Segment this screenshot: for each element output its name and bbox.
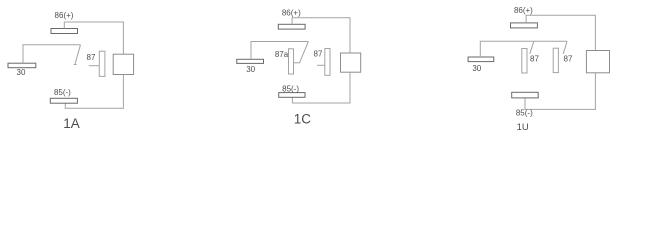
wire: terminal 30 to contact pivot (1A) — [23, 45, 81, 64]
svg-text:86(+): 86(+) — [55, 11, 74, 20]
wire: terminal 30 to contacts (1U) — [480, 41, 567, 57]
coil box (1A) — [113, 54, 133, 74]
fixed contact lead 87 (1C) — [317, 64, 325, 66]
svg-text:85(-): 85(-) — [54, 88, 71, 97]
movable contact blade left (1U) — [530, 41, 534, 54]
terminal 86 bar (1C) — [278, 24, 305, 29]
movable contact blade (1C) — [300, 42, 309, 63]
wire: coil to terminal 85 (1A) — [65, 75, 123, 109]
terminal 87 bar (1C) — [325, 49, 330, 76]
wire: terminal 30 to contact pivot (1C) — [251, 42, 308, 60]
terminal 87 bar (1A) — [99, 51, 105, 76]
wire: terminal 86 to coil (1C) — [292, 18, 350, 53]
blade tip tick (1A) — [74, 64, 77, 66]
svg-text:87a: 87a — [275, 50, 289, 59]
terminal 85 bar (1A) — [50, 98, 77, 103]
svg-text:1U: 1U — [517, 122, 529, 133]
svg-text:86(+): 86(+) — [282, 8, 301, 17]
terminal 87 bar left (1U) — [522, 49, 527, 74]
svg-text:30: 30 — [17, 68, 26, 77]
wire: terminal 86 to coil (1U) — [526, 15, 595, 50]
coil box (1C) — [341, 53, 361, 72]
svg-text:87: 87 — [530, 55, 539, 64]
svg-text:87: 87 — [314, 50, 323, 59]
terminal 86 bar (1U) — [511, 23, 538, 28]
wire: terminal 86 to coil (1A) — [64, 22, 123, 54]
svg-text:1C: 1C — [294, 111, 312, 126]
svg-text:1A: 1A — [63, 116, 80, 131]
fixed contact lead 87 (1A) — [89, 65, 100, 67]
wire: coil to terminal 85 (1U) — [525, 73, 595, 110]
terminal 86 bar (1A) — [51, 29, 78, 34]
coil box (1U) — [586, 51, 609, 73]
svg-text:87: 87 — [564, 55, 573, 64]
svg-text:86(+): 86(+) — [514, 6, 533, 15]
blade tip tick on 87a (1C) — [294, 62, 300, 64]
terminal 30 bar (1U) — [468, 57, 494, 62]
svg-text:30: 30 — [246, 65, 255, 74]
movable contact blade right (1U) — [563, 41, 567, 54]
terminal 85 bar (1C) — [279, 93, 305, 98]
svg-text:30: 30 — [472, 64, 481, 73]
terminal 30 bar (1A) — [8, 63, 36, 67]
terminal 87a bar (1C) — [289, 49, 294, 74]
terminal 87 bar right (1U) — [553, 48, 558, 72]
movable contact blade (1A) — [75, 45, 81, 64]
svg-text:85(-): 85(-) — [516, 108, 533, 117]
terminal 85 bar (1U) — [512, 92, 539, 98]
svg-text:85(-): 85(-) — [282, 85, 299, 94]
wire: coil to terminal 85 (1C) — [292, 72, 350, 103]
svg-text:87: 87 — [87, 53, 96, 62]
terminal 30 bar (1C) — [237, 59, 264, 63]
